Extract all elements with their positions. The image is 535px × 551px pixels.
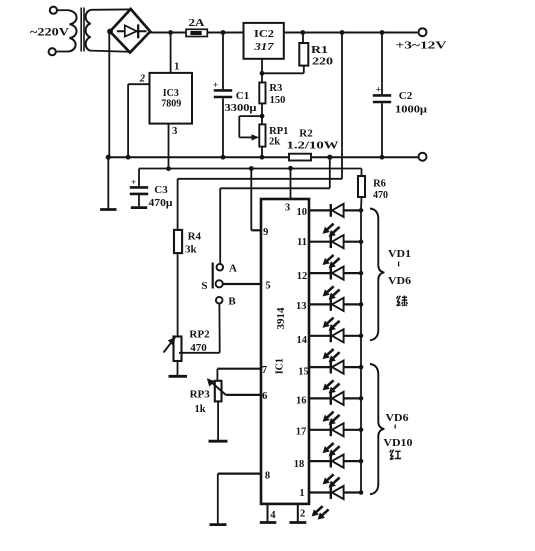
capacitor C1 3300u [222,33,224,90]
IC pin3 riser [290,168,292,199]
node [260,155,265,160]
resistor R2 1.2/10W [289,154,311,161]
wire +V feed to R4 [341,33,343,179]
wire bridge DC- down to 0V rail [108,32,110,158]
node: bridge DC- vertex [107,29,113,35]
svg-text:VD10: VD10 [383,438,412,449]
svg-text:15: 15 [298,367,309,378]
AC input terminal top [50,7,57,14]
switch terminal A [217,264,224,271]
output terminal - [419,153,427,161]
svg-text:R4: R4 [188,230,202,242]
svg-text:RP2: RP2 [189,328,210,340]
label green char [397,296,408,307]
svg-text:RP3: RP3 [190,389,211,401]
svg-text:VD1: VD1 [388,249,411,260]
svg-text:RP1: RP1 [269,126,288,137]
RP1 wiper loop [239,115,262,117]
svg-text:3k: 3k [185,244,198,256]
svg-text:5: 5 [265,280,270,291]
node: C1 tap [221,30,226,35]
regulator IC3 7809 [170,33,172,73]
svg-text:18: 18 [294,459,305,470]
svg-text:+3~12V: +3~12V [396,41,448,52]
svg-text:~220V: ~220V [30,25,69,39]
wire [177,253,179,336]
node R3/RP1 junction [260,114,265,119]
capacitor C2 1000u [381,33,383,95]
node: IC3 pin1 tap [168,30,173,35]
switch lever [212,263,214,289]
switch terminal B [216,297,223,304]
output terminal + [419,28,427,36]
wire [261,103,263,124]
svg-text:R2: R2 [299,127,313,139]
RP2 wiper arrow [164,342,172,352]
node IC3 pin3 junction [166,166,171,171]
wire B to RP2 bottom [218,304,220,353]
IC pin9 [250,169,252,231]
op-amp/driver IC1 LM3914 [261,199,309,504]
svg-text:11: 11 [297,237,307,248]
svg-text:3300μ: 3300μ [225,103,257,114]
svg-text:10: 10 [296,207,307,218]
node: +V to LED feed [340,30,345,35]
svg-text:2: 2 [139,74,146,85]
svg-text:3: 3 [285,202,290,213]
transformer T primary winding [70,11,77,52]
svg-text:2A: 2A [189,17,205,29]
resistor R4 3k [174,230,182,253]
svg-text:VD6: VD6 [388,276,411,287]
tick [394,425,396,429]
svg-text:R3: R3 [269,83,282,94]
svg-text:3914: 3914 [275,307,287,330]
svg-text:470: 470 [373,190,388,201]
svg-text:4: 4 [270,510,276,521]
node: C2 top [380,30,385,35]
wire +V rail [150,32,186,34]
svg-text:7: 7 [262,365,267,376]
svg-text:16: 16 [296,395,307,406]
svg-text:8: 8 [265,470,270,481]
wire RP1 bottom to rail [261,147,263,158]
svg-text:150: 150 [270,95,286,106]
node C2 bottom [380,155,385,160]
svg-text:7809: 7809 [161,98,181,109]
label red char [390,450,401,460]
svg-text:IC3: IC3 [163,88,179,99]
svg-text:R1: R1 [311,44,328,56]
svg-text:A: A [229,262,237,274]
regulator IC2 317 [244,23,284,59]
tick [398,262,400,267]
fuse 2A [186,29,207,36]
svg-text:14: 14 [296,335,307,346]
RP3 wiper to pin6 [212,382,226,395]
node: R1 top [300,30,305,35]
switch common [216,280,223,287]
potentiometer RP2 470 [174,337,182,362]
wire R2 sense to switch A [329,157,331,188]
node pin3 riser junction [288,166,293,171]
svg-text:C1: C1 [236,90,249,102]
wire [57,9,70,11]
svg-text:9: 9 [263,227,268,238]
svg-text:1k: 1k [194,404,205,415]
wire [311,156,419,158]
svg-text:6: 6 [262,391,267,402]
resistor R6 470 [358,176,365,197]
svg-text:2k: 2k [269,136,280,147]
wire [56,51,70,53]
wire 9V rail [139,168,362,170]
brace VD1-VD6 group [370,209,384,341]
wire to IC pin5 [223,283,261,285]
wire [207,32,243,34]
svg-text:317: 317 [253,42,274,53]
AC input terminal bottom [49,48,56,55]
svg-text:VD6: VD6 [386,413,409,424]
potentiometer RP3 1k [215,381,222,402]
potentiometer RP1 2k [259,124,265,146]
wire IC2 adj pin [261,59,263,83]
wire IC pin8 to ground [218,473,261,475]
svg-text:IC1: IC1 [275,358,286,374]
svg-text:B: B [228,295,236,307]
node [260,71,265,76]
IC pin4 ground [267,504,269,521]
svg-text:C2: C2 [399,90,413,102]
wire [284,32,418,34]
node [106,155,111,160]
svg-text:13: 13 [296,301,307,312]
node [221,155,226,160]
LED anode rail [360,210,362,493]
wire IC pin7 [217,368,261,370]
svg-text:2: 2 [300,508,305,519]
node [126,155,131,160]
ground left [107,157,109,209]
svg-text:+: + [131,177,136,187]
capacitor C3 470u [138,169,140,187]
transformer secondary winding [86,10,91,51]
svg-text:C3: C3 [154,184,168,196]
RP3 ground [217,401,219,440]
wire secondary top to bridge [91,8,131,10]
svg-text:+: + [213,81,218,91]
node pin9 riser junction [249,166,254,171]
svg-text:1000μ: 1000μ [395,104,427,115]
svg-text:1: 1 [174,62,179,73]
svg-text:1.2/10W: 1.2/10W [287,141,340,152]
transformer core [80,8,82,52]
svg-text:470μ: 470μ [149,198,173,209]
resistor R3 150 [259,83,265,104]
IC pin2 ground [297,504,299,521]
wire secondary bottom to bridge [91,51,130,52]
svg-text:R6: R6 [373,179,386,190]
svg-text:3: 3 [172,126,177,137]
svg-text:1: 1 [299,488,304,499]
node R2 right sense [327,155,332,160]
RP2 ground [177,361,179,375]
svg-text:12: 12 [297,271,308,282]
svg-text:S: S [201,280,207,292]
wire 0V rail [108,156,289,158]
bridge rectifier VD [110,9,150,53]
svg-text:220: 220 [312,56,334,68]
svg-text:17: 17 [296,427,307,438]
brace VD6-VD10 group [370,364,384,494]
svg-text:+: + [376,86,381,96]
resistor R1 220 [302,33,304,44]
svg-text:IC2: IC2 [254,29,274,40]
